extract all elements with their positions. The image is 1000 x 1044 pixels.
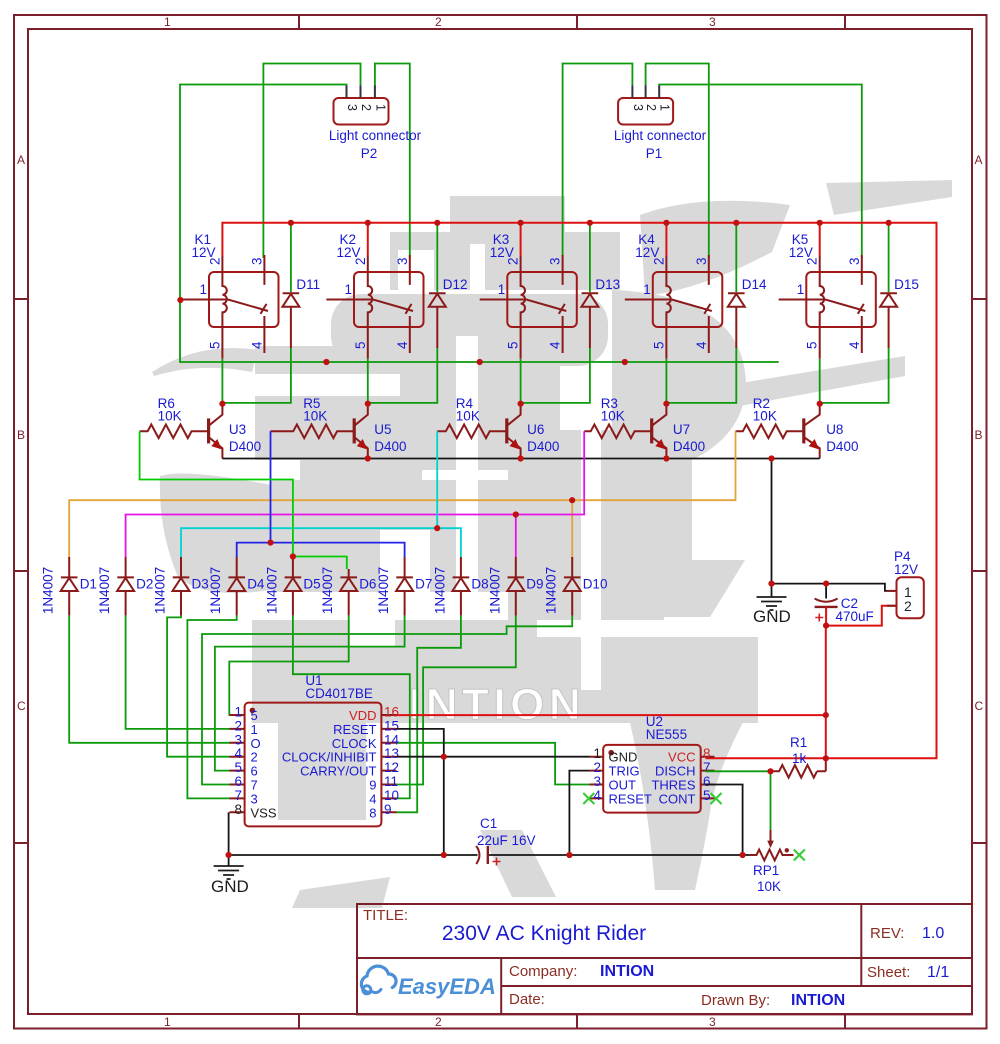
svg-text:1N4007: 1N4007 (487, 567, 502, 614)
diode D5 1N4007 (264, 557, 320, 616)
svg-text:1N4007: 1N4007 (264, 567, 279, 614)
svg-text:3: 3 (709, 1015, 716, 1029)
svg-text:10K: 10K (753, 409, 777, 424)
svg-text:4: 4 (847, 341, 862, 349)
wire C2 plus to P4 pin2 and VDD (826, 606, 896, 626)
connector P4 12V (887, 549, 924, 618)
svg-text:CLOCK: CLOCK (332, 736, 377, 751)
wire D12 cathode to rail (436, 223, 438, 292)
svg-text:2: 2 (904, 598, 912, 614)
svg-text:12V: 12V (894, 562, 918, 577)
svg-text:8: 8 (703, 746, 711, 761)
diode D12 (429, 277, 468, 348)
svg-text:VDD: VDD (349, 708, 376, 723)
svg-text:1: 1 (373, 104, 387, 111)
svg-text:1: 1 (251, 722, 258, 737)
svg-text:D400: D400 (229, 439, 261, 454)
svg-text:1.0: 1.0 (922, 925, 944, 942)
svg-text:4: 4 (369, 791, 376, 806)
svg-text:12: 12 (384, 760, 399, 775)
wire U2 THRES to RP1 left (706, 785, 743, 856)
svg-text:3: 3 (709, 15, 716, 29)
wire P2 pin2 to K1 pin3 (263, 64, 360, 259)
svg-text:10K: 10K (456, 409, 480, 424)
wire D5 to U1 pin10b (293, 616, 410, 799)
svg-text:230V AC Knight Rider: 230V AC Knight Rider (442, 922, 646, 945)
svg-text:REV:: REV: (870, 925, 904, 942)
wire relay pin5 to U8 collector (819, 359, 821, 404)
svg-text:2: 2 (207, 257, 222, 265)
svg-text:3: 3 (234, 732, 242, 747)
svg-text:CLOCK/INHIBIT: CLOCK/INHIBIT (282, 750, 377, 765)
wire D13 cathode to rail (589, 223, 591, 292)
svg-text:D400: D400 (673, 439, 705, 454)
svg-text:D13: D13 (595, 277, 620, 292)
wire D8 to U1 pin9 (396, 616, 461, 813)
svg-text:Company:: Company: (509, 963, 577, 980)
svg-text:A: A (975, 153, 983, 167)
svg-text:3: 3 (548, 257, 563, 265)
svg-text:4: 4 (694, 341, 709, 349)
wire VDD net U1 pin16 (397, 626, 826, 759)
no-connect X U2 pin5 (711, 793, 722, 804)
svg-text:C: C (17, 699, 26, 713)
svg-text:C: C (975, 699, 984, 713)
resistor R5 10K (271, 396, 355, 438)
svg-text:CARRY/OUT: CARRY/OUT (300, 764, 376, 779)
capacitor C1 22uF 16V (476, 816, 535, 866)
svg-text:U6: U6 (527, 422, 544, 437)
svg-text:2: 2 (435, 1015, 442, 1029)
diode D14 (728, 277, 767, 348)
no-connect X U2 pin4 (583, 793, 594, 804)
svg-text:D15: D15 (894, 277, 919, 292)
wire D9 to U1 pin11 (396, 616, 516, 785)
svg-text:VSS: VSS (251, 805, 277, 820)
svg-text:D400: D400 (527, 439, 559, 454)
svg-text:Drawn By:: Drawn By: (701, 992, 770, 1009)
diode D1 1N4007 (41, 557, 97, 616)
wire P1 pin1 to K5 pin3 (659, 85, 862, 259)
svg-text:A: A (17, 153, 25, 167)
svg-text:1: 1 (164, 15, 171, 29)
wire K3 coil to rail (520, 223, 522, 256)
svg-text:P1: P1 (646, 146, 663, 161)
svg-text:CONT: CONT (659, 791, 696, 806)
wire D3 to U1 pin4 (167, 616, 230, 757)
svg-text:8: 8 (234, 802, 242, 817)
wire K4 coil to rail (665, 223, 667, 256)
svg-text:NE555: NE555 (646, 727, 687, 742)
svg-text:INTION: INTION (791, 992, 845, 1009)
svg-text:RP1: RP1 (753, 863, 779, 878)
svg-text:3: 3 (631, 104, 645, 111)
svg-text:Date:: Date: (509, 991, 545, 1008)
svg-text:14: 14 (384, 732, 400, 747)
wire relay pin5 to U5 collector (367, 359, 369, 404)
svg-text:4: 4 (593, 788, 601, 803)
svg-text:1k: 1k (792, 751, 807, 766)
diode D15 (880, 277, 919, 348)
svg-text:2: 2 (805, 257, 820, 265)
svg-text:U8: U8 (826, 422, 843, 437)
svg-text:1N4007: 1N4007 (432, 567, 447, 614)
svg-text:4: 4 (395, 341, 410, 349)
svg-text:5: 5 (506, 341, 521, 349)
svg-text:10K: 10K (601, 409, 625, 424)
svg-text:5: 5 (207, 341, 222, 349)
svg-text:2: 2 (353, 257, 368, 265)
svg-text:D11: D11 (296, 277, 320, 292)
svg-text:B: B (975, 428, 983, 442)
svg-text:RESET: RESET (609, 791, 652, 806)
diode D2 1N4007 (97, 557, 153, 616)
svg-text:3: 3 (345, 104, 359, 111)
svg-text:D7: D7 (415, 577, 432, 592)
transistor U8 D400 (802, 404, 858, 459)
svg-text:1N4007: 1N4007 (97, 567, 112, 614)
svg-text:D3: D3 (192, 577, 209, 592)
svg-text:D2: D2 (136, 577, 153, 592)
svg-text:1: 1 (593, 746, 601, 761)
wire relay pin5 to U7 collector (665, 359, 667, 404)
resistor R6 10K (140, 396, 209, 438)
svg-text:6: 6 (251, 764, 258, 779)
svg-text:5: 5 (651, 341, 666, 349)
svg-text:2: 2 (644, 104, 658, 111)
wire emitter ground bus (222, 458, 819, 460)
svg-text:6: 6 (234, 774, 242, 789)
svg-text:1: 1 (344, 282, 352, 297)
wire relay pin5 to U6 collector (520, 359, 522, 404)
svg-text:9: 9 (384, 802, 392, 817)
svg-text:10K: 10K (757, 879, 781, 894)
svg-text:DISCH: DISCH (655, 764, 695, 779)
capacitor C2 470uF (815, 596, 874, 624)
transistor U6 D400 (505, 404, 559, 459)
diode D3 1N4007 (153, 557, 209, 616)
diode D11 (282, 277, 320, 348)
svg-text:2: 2 (251, 750, 258, 765)
svg-text:2: 2 (359, 104, 373, 111)
svg-text:1: 1 (658, 104, 672, 111)
svg-text:CD4017BE: CD4017BE (305, 686, 373, 701)
wire D1 to U1 pin3 (69, 616, 230, 743)
wire blue D4/D7 to R5 base (237, 431, 405, 557)
svg-text:1: 1 (643, 282, 651, 297)
wire D6 to U1 pin1 (229, 616, 348, 715)
svg-text:D5: D5 (303, 577, 320, 592)
svg-text:5: 5 (353, 341, 368, 349)
svg-text:4: 4 (548, 341, 563, 349)
wire U1 VSS to ground (228, 812, 230, 855)
svg-text:1: 1 (164, 1015, 171, 1029)
svg-text:1N4007: 1N4007 (320, 567, 335, 614)
resistor R3 10K (584, 396, 652, 438)
wire C1 to RP1 (488, 854, 750, 856)
svg-text:U3: U3 (229, 422, 246, 437)
svg-text:3: 3 (847, 257, 862, 265)
svg-text:EasyEDA: EasyEDA (398, 974, 496, 999)
svg-text:C1: C1 (480, 816, 497, 831)
svg-text:D9: D9 (526, 577, 543, 592)
svg-text:4: 4 (234, 746, 242, 761)
wire U1 pin15/pin13 to ground (397, 729, 590, 855)
wire D13 anode to U6 collector (521, 348, 590, 403)
svg-text:470uF: 470uF (836, 609, 874, 624)
svg-text:10K: 10K (158, 409, 182, 424)
svg-text:8: 8 (369, 805, 376, 820)
wire P2 pin1 to K2 pin3 (375, 64, 410, 259)
svg-text:D8: D8 (471, 577, 488, 592)
wire P1 pin2 to K4 pin3 (646, 64, 709, 259)
resistor R1 1k (706, 735, 826, 778)
svg-text:13: 13 (384, 746, 399, 761)
diode D9 1N4007 (487, 557, 543, 616)
connector P2 (329, 86, 422, 162)
svg-text:6: 6 (703, 774, 711, 789)
svg-text:1N4007: 1N4007 (41, 567, 56, 614)
svg-text:D14: D14 (742, 277, 767, 292)
wire magenta D2/D9 to R3 base (126, 431, 585, 557)
svg-text:5: 5 (234, 760, 242, 775)
svg-text:3: 3 (251, 791, 258, 806)
svg-text:THRES: THRES (651, 778, 695, 793)
svg-text:10K: 10K (303, 409, 327, 424)
svg-text:B: B (17, 428, 25, 442)
wire K5 coil to rail (819, 223, 821, 256)
svg-text:GND: GND (753, 607, 791, 626)
wire ground bus to C1 (229, 854, 478, 856)
relay K5 12V (779, 232, 876, 359)
wire D15 anode to U8 collector (820, 348, 889, 403)
svg-text:D10: D10 (583, 577, 608, 592)
svg-text:U5: U5 (374, 422, 391, 437)
diode D7 1N4007 (376, 557, 432, 616)
svg-text:Light connector: Light connector (329, 128, 422, 143)
connector P1 (614, 86, 707, 162)
wire D2 to U1 pin2 (126, 616, 230, 729)
svg-text:4: 4 (249, 341, 264, 349)
op-amp U1 CD4017BE (230, 673, 400, 826)
svg-text:2: 2 (435, 15, 442, 29)
svg-text:1N4007: 1N4007 (153, 567, 168, 614)
svg-text:1: 1 (797, 282, 805, 297)
wire D7 to U1 pin5 (215, 616, 405, 771)
svg-text:1N4007: 1N4007 (376, 567, 391, 614)
svg-text:OUT: OUT (609, 778, 637, 793)
svg-text:7: 7 (251, 778, 258, 793)
svg-text:11: 11 (384, 774, 398, 789)
svg-text:3: 3 (593, 774, 601, 789)
relay K3 12V (480, 232, 577, 359)
svg-text:INTION: INTION (600, 963, 654, 980)
wire D10 to U1 pin6 (202, 616, 572, 785)
wire D14 cathode to rail (735, 223, 737, 292)
svg-text:2: 2 (234, 718, 242, 733)
svg-text:D4: D4 (247, 577, 265, 592)
svg-text:1: 1 (199, 282, 207, 297)
svg-text:GND: GND (609, 750, 638, 765)
svg-text:5: 5 (251, 708, 258, 723)
ground GND left (211, 855, 249, 896)
no-connect X RP1 right (794, 850, 805, 861)
wire green D5/D6 to R6 base (140, 431, 347, 569)
svg-text:D12: D12 (443, 277, 468, 292)
wire D11 cathode to rail (290, 223, 292, 292)
ground GND right (753, 584, 791, 626)
wire D15 cathode to rail (888, 223, 890, 292)
wire U1 clock to U2 out (396, 743, 590, 785)
svg-text:1: 1 (498, 282, 506, 297)
svg-text:22uF 16V: 22uF 16V (477, 833, 536, 848)
relay K4 12V (625, 232, 723, 359)
wire D4 to U1 pin7 (187, 616, 236, 799)
relay K1 12V (180, 232, 278, 359)
wire relay pin5 to U3 collector (221, 359, 223, 404)
wire D12 anode to U5 collector (368, 348, 438, 403)
wire K2 coil to rail (367, 223, 369, 256)
svg-text:1N4007: 1N4007 (544, 567, 559, 614)
svg-text:5: 5 (805, 341, 820, 349)
svg-text:D400: D400 (826, 439, 858, 454)
wire D14 anode to U7 collector (666, 348, 736, 403)
svg-text:R1: R1 (790, 735, 807, 750)
diode D13 (581, 277, 620, 348)
transistor U7 D400 (650, 404, 705, 459)
diode D4 1N4007 (208, 557, 265, 616)
svg-text:10: 10 (384, 788, 399, 803)
svg-text:1: 1 (234, 705, 242, 720)
relay K2 12V (326, 232, 423, 359)
resistor R2 10K (736, 396, 804, 438)
svg-text:O: O (251, 736, 261, 751)
svg-text:5: 5 (703, 788, 711, 803)
svg-text:VCC: VCC (668, 750, 695, 765)
svg-text:P2: P2 (361, 146, 378, 161)
wire P1 pin3 to K3 pin3 (563, 64, 633, 259)
transistor U3 D400 (207, 404, 261, 459)
svg-text:U7: U7 (673, 422, 690, 437)
wire cyan D3/D8 to R4 base (181, 431, 461, 557)
svg-text:D400: D400 (374, 439, 406, 454)
wire +12V rail (221, 256, 223, 272)
svg-text:INTION: INTION (409, 680, 585, 729)
wire P2 pin3 to K1 pin1 and COM bus (180, 85, 779, 363)
svg-text:7: 7 (703, 760, 711, 775)
svg-text:3: 3 (694, 257, 709, 265)
svg-text:3: 3 (249, 257, 264, 265)
wire U2 TRIG to RP1 net (569, 771, 589, 855)
wire D11 anode to U3 collector (222, 348, 291, 403)
svg-text:D6: D6 (359, 577, 376, 592)
diode D8 1N4007 (432, 557, 488, 616)
diode D10 1N4007 (544, 557, 608, 616)
svg-text:TITLE:: TITLE: (363, 907, 408, 924)
svg-text:1N4007: 1N4007 (208, 567, 223, 614)
svg-text:Sheet:: Sheet: (867, 964, 910, 981)
potentiometer RP1 10K (750, 771, 794, 894)
op-amp U2 NE555 (590, 714, 715, 813)
svg-text:3: 3 (395, 257, 410, 265)
svg-text:2: 2 (506, 257, 521, 265)
wire orange D1/D10 to R2 base (69, 431, 735, 557)
diode D6 1N4007 (320, 567, 376, 616)
resistor R4 10K (437, 396, 507, 438)
svg-text:GND: GND (211, 877, 249, 896)
svg-text:2: 2 (593, 760, 601, 775)
svg-text:TRIG: TRIG (609, 764, 640, 779)
transistor U5 D400 (353, 404, 407, 459)
svg-text:D1: D1 (80, 577, 97, 592)
svg-text:1/1: 1/1 (927, 964, 949, 981)
svg-text:15: 15 (384, 718, 399, 733)
svg-text:16: 16 (384, 705, 399, 720)
wire emitter bus to right ground (772, 459, 897, 599)
svg-text:7: 7 (234, 788, 242, 803)
svg-text:9: 9 (369, 778, 376, 793)
svg-text:2: 2 (651, 257, 666, 265)
svg-text:Light connector: Light connector (614, 128, 707, 143)
svg-text:RESET: RESET (333, 722, 376, 737)
